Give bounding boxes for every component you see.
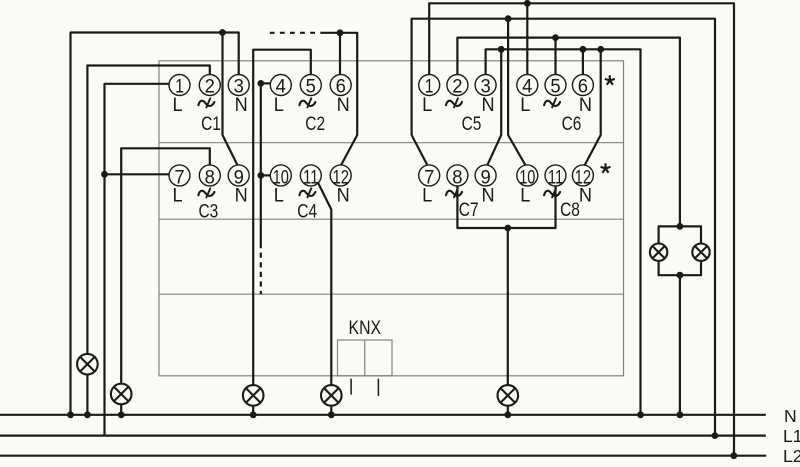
svg-text:N: N: [579, 185, 592, 207]
svg-text:C1: C1: [201, 113, 221, 135]
svg-text:L: L: [422, 94, 432, 116]
svg-text:L: L: [274, 94, 284, 116]
svg-text:5: 5: [306, 75, 316, 97]
svg-text:L: L: [172, 185, 182, 207]
svg-text:L: L: [274, 185, 284, 207]
svg-text:L: L: [422, 185, 432, 207]
svg-text:8: 8: [452, 166, 462, 188]
svg-text:C5: C5: [462, 113, 482, 135]
svg-text:N: N: [235, 94, 248, 116]
svg-text:N: N: [482, 94, 495, 116]
svg-text:L: L: [520, 185, 530, 207]
svg-text:L1: L1: [783, 426, 800, 446]
svg-text:L2: L2: [783, 446, 800, 466]
svg-text:N: N: [784, 406, 797, 426]
svg-text:N: N: [337, 185, 350, 207]
svg-text:C3: C3: [199, 201, 219, 223]
svg-text:L: L: [520, 94, 530, 116]
svg-text:C8: C8: [560, 199, 580, 221]
svg-text:11: 11: [303, 166, 318, 188]
svg-text:2: 2: [205, 75, 215, 97]
svg-text:11: 11: [548, 166, 563, 188]
svg-text:2: 2: [452, 75, 462, 97]
svg-text:C7: C7: [459, 199, 479, 221]
svg-text:8: 8: [205, 166, 215, 188]
svg-text:C4: C4: [297, 201, 317, 223]
svg-text:5: 5: [550, 75, 560, 97]
svg-text:N: N: [337, 94, 350, 116]
svg-text:N: N: [235, 185, 248, 207]
svg-text:KNX: KNX: [349, 317, 382, 339]
svg-text:L: L: [172, 94, 182, 116]
svg-text:C2: C2: [305, 113, 325, 135]
svg-text:N: N: [482, 185, 495, 207]
svg-text:C6: C6: [562, 113, 582, 135]
